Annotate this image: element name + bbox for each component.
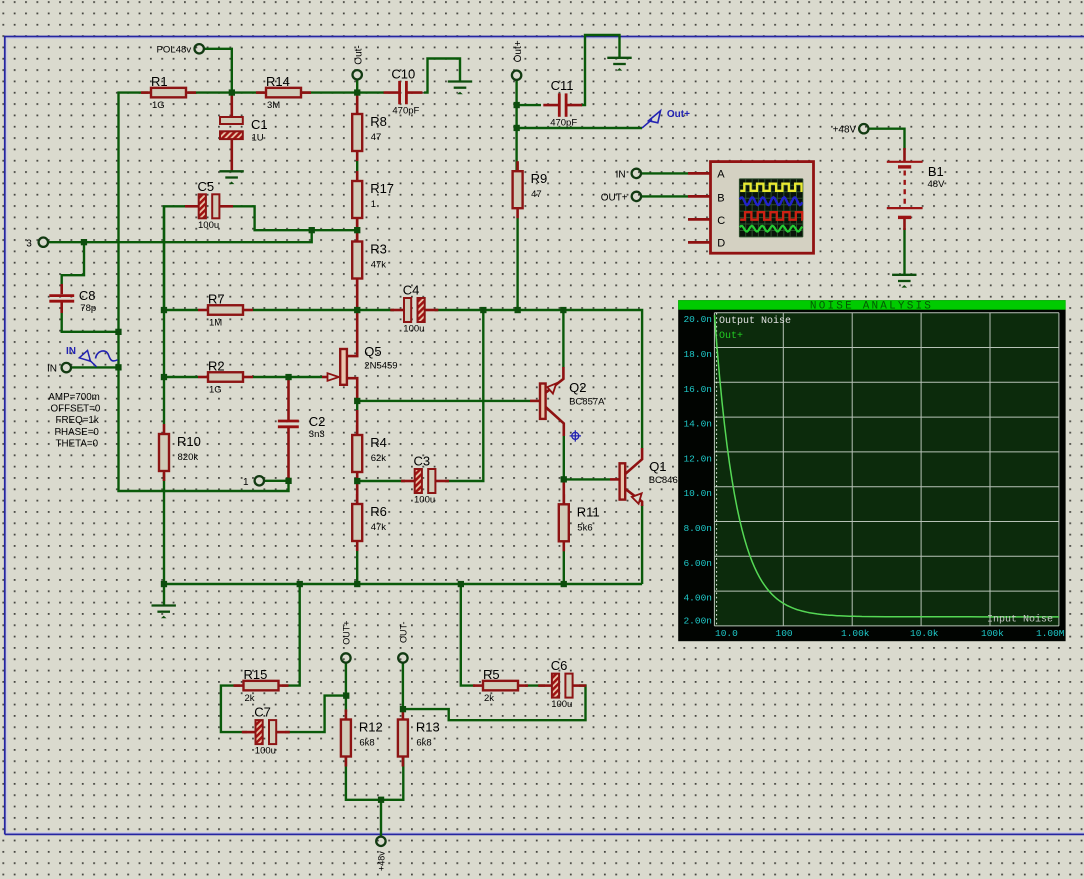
wire Out+ top terminal down [515,80,517,171]
svg-text:8.00n: 8.00n [683,523,712,534]
junction Q2 emitter [560,307,566,313]
svg-text:2N5459: 2N5459 [364,361,397,372]
wire bus to R15 [282,584,300,686]
svg-text:BC857A: BC857A [569,397,605,408]
svg-text:1M: 1M [209,318,222,329]
wire Q2 emitter vertical [562,310,564,368]
wire R17 to R3 through C5 node [356,217,358,242]
svg-text:3n3: 3n3 [309,429,325,440]
wire Q1 emitter to bus [641,505,643,584]
wire node to C10 [357,91,384,93]
wire C6 right return loop to R13 node [403,686,586,721]
wire R2 right to C2 node to Q5 gate [253,376,322,378]
wire C8 bottom to IN vertical [62,310,119,332]
svg-text:Out+: Out+ [719,331,743,342]
svg-text:6.00n: 6.00n [683,558,712,569]
svg-text:100u: 100u [198,220,219,231]
resistor R14 3M [256,74,311,111]
wire C5 left plate to R7 node [164,206,186,310]
svg-text:C2: C2 [309,414,326,429]
origin marker (blue crosshair) [570,430,581,441]
wire R6 bottom to bus [356,541,358,584]
svg-text:B1: B1 [928,164,944,179]
svg-text:AMP=700m: AMP=700m [48,392,99,403]
resistor R1 1G [141,74,196,111]
capacitor C1 1U (polarized horizontal plates) [220,93,268,171]
junction bus/R6 [354,581,360,587]
wire POL48v terminal to R1/R14 node [204,49,232,93]
wire R11 top lead [563,479,565,495]
wire OUT+ terminal to scope pin B [642,195,688,197]
junction R17/R3/C5 return [354,227,360,233]
svg-text:100k: 100k [981,628,1004,639]
svg-text:C8: C8 [79,288,96,303]
wire R8 to R17 [356,150,358,181]
svg-text:R12: R12 [359,720,383,735]
wire R1 right to R14 left through node [188,91,264,93]
svg-text:Q1: Q1 [649,459,666,474]
ground top right near C11 [607,58,631,71]
wire R4 bottom to C3/R6 node [356,472,358,494]
wire Q5 source/R4 vertical [356,392,358,425]
svg-text:C: C [717,215,725,227]
terminal POL48v [157,44,204,55]
junction bus/R11 [561,581,567,587]
svg-text:100u: 100u [551,699,572,710]
svg-text:R9: R9 [531,171,548,186]
svg-text:20.0n: 20.0n [683,314,712,325]
svg-text:47k: 47k [371,522,387,533]
svg-text:IN: IN [616,170,626,181]
svg-text:IN: IN [66,346,76,357]
wire +48V terminal to battery [869,129,905,150]
svg-text:C4: C4 [403,283,420,298]
svg-text:R15: R15 [244,667,268,682]
svg-text:4.00n: 4.00n [683,593,712,604]
oscilloscope U1 (4-channel) [688,162,814,254]
junction R7/R3/Q5 drain/C4 [354,307,360,313]
terminal OUT+ (bottom) [341,620,351,662]
junction bus/R10/ground [161,581,167,587]
wire C10 right to ground [424,59,460,93]
wire R15 left to C7 [221,686,247,733]
svg-text:C1: C1 [251,117,268,132]
wire Out- terminal stub [356,80,358,94]
svg-text:C5: C5 [198,179,215,194]
svg-text:3M: 3M [267,100,280,111]
svg-text:1: 1 [243,477,249,488]
svg-text:R1: R1 [151,74,168,89]
junction R1/R14/POL48v/C1 [229,89,235,95]
junction C2 bottom/terminal 1 [285,478,291,484]
terminal 1 [243,476,264,488]
wire R5 to C6 [525,684,545,686]
wire R12 bottom loop to +48v [346,756,403,800]
svg-text:OUT-: OUT- [399,621,409,643]
svg-text:C7: C7 [254,705,271,720]
junction R9 bottom [515,307,521,313]
resistor R9 47 [513,161,548,218]
capacitor C2 3n3 (horizontal plates) [278,377,326,481]
terminal Out+ (top) [512,40,524,80]
wire R2 left node line [164,376,198,378]
source parameter text AMP/OFFSET/FREQ/PHASE/THETA [48,392,100,449]
svg-text:R2: R2 [208,359,225,374]
wire OUT+ terminal down to R12 [345,663,347,712]
svg-text:+48V: +48V [833,125,857,136]
capacitor C3 100u [401,454,449,506]
wire IN terminal to scope pin A [642,172,689,174]
wire Q1 base [564,478,610,480]
wire Q5 source node to Q2 base [357,400,530,402]
svg-text:THETA=0: THETA=0 [56,438,99,449]
wire bus to R5 [461,584,475,686]
svg-text:10.0n: 10.0n [683,488,712,499]
capacitor C5 100u [185,179,233,231]
resistor R12 6k8 [341,710,383,767]
svg-text:R7: R7 [208,292,225,307]
svg-text:6k8: 6k8 [359,738,374,749]
svg-text:+48v: +48v [377,851,387,871]
ground below battery B1 [892,275,916,288]
junction OUT-/C6 return/R13 [400,706,406,712]
svg-text:R3: R3 [370,242,387,257]
svg-text:R4: R4 [370,435,387,450]
svg-text:10.0: 10.0 [715,628,738,639]
svg-text:47: 47 [531,189,542,200]
svg-text:100u: 100u [414,495,435,506]
svg-text:NOISE ANALYSIS: NOISE ANALYSIS [810,301,933,313]
svg-text:14.0n: 14.0n [683,419,712,430]
terminal Out- (top) [353,45,365,79]
wire R7 line [164,309,198,311]
terminal OUT- (bottom) [398,621,408,662]
resistor R11 5k6 [559,494,600,551]
wire C3 vertical [445,310,483,481]
junction R12/R13/+48v [378,797,384,803]
svg-text:6k8: 6k8 [416,738,431,749]
svg-text:C10: C10 [391,67,415,82]
wire R14 right to Out-/R8 node [302,91,357,93]
svg-text:FREQ=1k: FREQ=1k [56,415,99,426]
resistor R10 820k [159,424,201,481]
svg-text:R6: R6 [370,504,387,519]
capacitor C7 100u [242,705,290,757]
svg-text:12.0n: 12.0n [683,453,712,464]
junction Out+ pointer wire [514,125,520,131]
junction R2/C2/Q5 gate [285,374,291,380]
svg-text:B: B [717,193,724,205]
wire R7 left node to R2/R10 column [163,206,165,424]
junction bus/R5 [458,581,464,587]
red lead overlays on R8/R17/R3/R4/R6/R11 column [357,93,564,504]
svg-text:OUT+: OUT+ [601,193,628,204]
svg-text:Output Noise: Output Noise [719,315,791,327]
svg-text:10.0k: 10.0k [910,628,939,639]
wire Out+ node to pointer [517,127,642,129]
wire node to C8 top [62,242,84,286]
wire R9 bottom lead [516,218,518,310]
transistor Q5 2N5459 JFET [322,310,398,401]
wire terminal 3 to C5 return [49,230,312,242]
wire C11 right to top ground [581,35,620,105]
svg-text:POL48v: POL48v [157,44,192,55]
svg-text:R8: R8 [370,114,387,129]
svg-text:18.0n: 18.0n [683,349,712,360]
wire bus stub to ground symbol [163,584,165,606]
svg-text:Q2: Q2 [569,380,586,395]
wire ground bus [164,583,642,585]
svg-text:PHASE=0: PHASE=0 [55,427,100,438]
svg-text:100: 100 [776,628,793,639]
svg-text:OFFSET=0: OFFSET=0 [51,404,101,415]
svg-text:820k: 820k [178,452,199,463]
svg-text:A: A [717,168,725,180]
junction bus/R15 [297,581,303,587]
wire OUT- terminal down to R13 [402,663,404,712]
svg-text:C6: C6 [551,658,568,673]
svg-text:IN: IN [47,364,57,375]
junction R4/C3/R6 [354,478,360,484]
resistor R5 2k [473,667,528,704]
svg-text:3: 3 [26,239,32,250]
wire C5 right plate return to R17/R3 node [230,206,357,230]
terminal +48v (bottom) [376,837,386,871]
svg-text:R5: R5 [483,667,500,682]
svg-text:Out+: Out+ [667,109,690,120]
svg-text:1G: 1G [209,385,222,396]
ground below C1 [219,171,243,184]
voltage probe label IN (blue source symbol) [66,346,118,367]
resistor R15 2k [234,667,289,704]
svg-text:C11: C11 [551,78,574,93]
svg-text:R13: R13 [416,720,440,735]
ground at bus left [152,606,176,619]
wire C7 right to R12 node [285,696,346,733]
resistor R6 47k [352,494,387,551]
junction Q5 source/R4/Q2 base [354,398,360,404]
svg-text:5k6: 5k6 [577,522,592,533]
svg-text:2.00n: 2.00n [683,615,712,626]
wire R1 left down-and-around to C2 bottom node [119,93,289,491]
svg-text:2k: 2k [484,693,494,704]
junction 3-wire joins C5 return [309,227,315,233]
svg-text:62k: 62k [371,453,387,464]
svg-text:1: 1 [371,199,376,210]
svg-text:C3: C3 [414,454,431,469]
svg-text:R11: R11 [577,504,600,519]
ground below C10 [448,82,472,95]
svg-text:47k: 47k [371,260,387,271]
svg-text:Out-: Out- [354,45,365,64]
svg-text:470pF: 470pF [392,106,419,117]
wire node to C11 [517,104,541,106]
junction IN terminal [115,364,121,370]
wire terminal 1 to C2 bottom node [265,480,289,482]
wire R7 right to drain node [253,309,357,311]
junction Out+/C11 [514,102,520,108]
svg-text:R17: R17 [370,181,394,196]
svg-text:R14: R14 [266,74,290,89]
resistor R13 6k8 [398,710,440,767]
capacitor C10 470pF [384,67,423,117]
svg-text:Q5: Q5 [364,344,381,359]
svg-text:48V: 48V [928,179,946,190]
junction C8 bottom [115,329,121,335]
resistor R8 47 [352,104,387,161]
svg-text:100u: 100u [255,746,276,757]
wire Q2 collector vertical to Q1 base node [563,435,565,479]
svg-text:1U: 1U [252,133,264,144]
terminal OUT+ (to scope) [601,192,641,204]
terminal IN (to scope) [616,169,641,181]
capacitor C6 100u [538,658,586,710]
svg-text:Input Noise: Input Noise [987,614,1053,626]
capacitor C4 100u [390,283,438,335]
terminal +48V (battery) [833,124,869,136]
wire +48v terminal lead [380,800,382,837]
svg-text:Out+: Out+ [513,40,524,62]
transistor Q1 BC846B NPN [610,448,684,506]
svg-text:16.0n: 16.0n [683,384,712,395]
capacitor C11 470pF [543,78,582,129]
svg-text:47: 47 [371,132,382,143]
resistor R7 1M [198,292,253,329]
resistor R3 47k [352,232,387,289]
svg-text:2k: 2k [245,693,255,704]
junction R2 left [161,374,167,380]
svg-text:100u: 100u [403,324,424,335]
junction OUT+/C7/R12 [343,693,349,699]
wire C4 right to C3 vertical node [435,309,484,311]
wire battery bottom to ground [903,228,905,275]
wire C3 node to R9 node to Q2 emitter node to Q1 collector corner [483,310,642,448]
svg-text:470pF: 470pF [550,118,577,129]
transistor Q2 BC857A PNP [530,367,605,436]
terminal 3 [26,238,48,250]
wire IN terminal to vertical [72,366,119,368]
junction C5/R7 left [161,307,167,313]
voltage probe Out+ (blue pointer) [642,109,690,128]
junction R14/Out-/C10/R8 [354,89,360,95]
noise analysis graph panel [678,300,1065,641]
wire node to C3 left [357,480,405,482]
resistor R17 1 [352,171,394,228]
svg-text:78p: 78p [80,303,96,314]
svg-text:D: D [717,238,725,250]
capacitor C8 78p (horizontal plates) [49,284,96,314]
junction Q2 collector/Q1 base/R11 [561,476,567,482]
resistor R4 62k [352,425,387,482]
svg-text:OUT+: OUT+ [342,620,352,644]
battery B1 48V [887,148,945,230]
wire drain node to C4 [357,309,394,311]
svg-text:1.00M: 1.00M [1036,628,1065,639]
junction 3-wire/C8 branch [81,239,87,245]
wire R11 bottom to bus [563,541,565,584]
svg-text:R10: R10 [177,434,201,449]
wire R10 bottom to bus [163,473,165,584]
junction C4/C3 vertical [480,307,486,313]
svg-text:1G: 1G [152,100,165,111]
resistor R2 1G [198,359,253,396]
svg-text:1.00k: 1.00k [841,628,870,639]
terminal IN with source [47,363,71,375]
